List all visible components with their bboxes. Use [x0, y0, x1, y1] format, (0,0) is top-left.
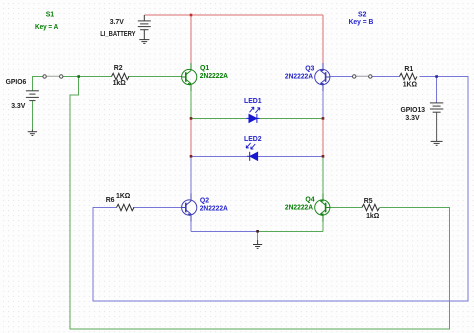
switch S1 [43, 75, 63, 78]
wire LED node A to Q2 collector (blue) [190, 156, 192, 194]
svg-text:R6: R6 [106, 197, 115, 204]
wire S2 to R1 (blue) [372, 76, 399, 78]
svg-text:2N2222A: 2N2222A [200, 206, 228, 213]
svg-text:Key = A: Key = A [35, 24, 58, 31]
wire GPIO6 to switch S1 (green) [32, 77, 42, 91]
node junction LED2 left [190, 155, 193, 158]
LED1 [246, 107, 260, 123]
svg-text:3.3V: 3.3V [11, 103, 26, 110]
transistor Q3 [315, 63, 330, 91]
switch S2 [353, 75, 372, 78]
wire GPIO13 battery lead (blue) [436, 77, 438, 103]
node junction rail [190, 14, 193, 17]
node junction LED1 right [322, 117, 325, 120]
svg-text:Q4: Q4 [305, 196, 314, 203]
wire Q4 emitter to ground row (green) [322, 221, 324, 231]
wire GPIO6 battery to ground (green) [31, 101, 33, 130]
wire ground row right (green) [258, 230, 323, 232]
svg-text:S1: S1 [46, 12, 55, 19]
svg-text:LED1: LED1 [244, 98, 262, 105]
wire LED node B to Q4 collector (green) [322, 156, 324, 194]
svg-text:1kΩ: 1kΩ [366, 213, 380, 220]
node junction S1 [77, 75, 80, 78]
wire junction to R2 (green) [79, 76, 112, 78]
svg-text:3.7V: 3.7V [110, 19, 125, 26]
wire Q3 emitter to LED node B (blue) [322, 90, 324, 118]
LED2 [246, 143, 257, 161]
wire S1 to junction (green) [63, 76, 79, 78]
ground (GPIO6) [28, 130, 37, 136]
svg-text:Q3: Q3 [305, 65, 314, 72]
resistor R1 [400, 73, 417, 79]
svg-text:Q2: Q2 [200, 197, 209, 204]
svg-text:R5: R5 [364, 198, 373, 205]
wire LED1 row right (green) [257, 117, 323, 119]
svg-text:3.3V: 3.3V [405, 115, 420, 122]
wire rail to Q3 collector (red) [322, 15, 324, 63]
wire LED1 row left (green) [191, 117, 246, 119]
node junction ground row [256, 230, 259, 233]
ground (LI_BATTERY) [139, 40, 149, 44]
svg-text:2N2222A: 2N2222A [285, 205, 313, 212]
resistor R2 [112, 73, 130, 79]
svg-text:1kΩ: 1kΩ [113, 80, 127, 87]
svg-text:LED2: LED2 [244, 136, 262, 143]
wire LED node A vertical left (red) [190, 118, 192, 156]
battery LI_BATTERY [138, 15, 151, 40]
svg-text:S2: S2 [358, 11, 367, 18]
node junction LED1 left [190, 117, 193, 120]
ground (emitter node) [253, 240, 262, 248]
battery GPIO13 [430, 103, 443, 141]
transistor Q2 [182, 194, 197, 222]
wire LED2 row right (blue) [257, 155, 323, 157]
node junction GPIO13 [435, 75, 438, 78]
svg-text:R1: R1 [404, 66, 413, 73]
transistor Q1 [182, 63, 197, 91]
resistor R6 [117, 204, 135, 210]
svg-text:Q1: Q1 [200, 65, 209, 72]
svg-text:Key = B: Key = B [349, 19, 374, 26]
wire rail to Q1 collector (red) [190, 15, 192, 63]
wire Q3 base to S2 (blue) [330, 76, 353, 78]
wire Q2 emitter to ground row (blue) [190, 221, 192, 231]
wire battery rail (red) [144, 14, 323, 16]
svg-text:2N2222A: 2N2222A [285, 74, 313, 81]
wire R6 to Q2 base (blue) [133, 207, 182, 209]
svg-text:1KΩ: 1KΩ [116, 193, 131, 200]
transistor Q4 [315, 194, 330, 222]
battery GPIO6 [26, 91, 39, 101]
svg-text:GPIO6: GPIO6 [6, 79, 27, 86]
node junction LED2 right [322, 155, 325, 158]
svg-text:R2: R2 [114, 65, 123, 72]
wire Q1 emitter to LED node A (green) [190, 90, 192, 118]
svg-text:2N2222A: 2N2222A [200, 73, 228, 80]
svg-text:1KΩ: 1KΩ [403, 81, 418, 88]
wire GPIO6 net to R5 via bottom (green) [70, 77, 450, 330]
wire R2 to Q1 base (green) [128, 76, 182, 78]
wire R1 to GPIO13 and around to R6 (blue) [93, 77, 468, 302]
wire ground row left (blue) [191, 230, 258, 232]
resistor R5 [362, 204, 379, 210]
ground (GPIO13) [431, 141, 443, 145]
wire ground stem (red) [257, 231, 259, 240]
svg-text:LI_BATTERY: LI_BATTERY [100, 31, 136, 38]
wire LED2 row left (blue) [191, 155, 247, 157]
wire R5 to Q4 base (green) [330, 207, 362, 209]
svg-text:GPIO13: GPIO13 [401, 107, 426, 114]
wire LED node B vertical right (red) [322, 118, 324, 156]
